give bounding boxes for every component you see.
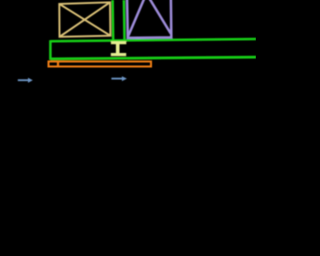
flow arrow left: head xyxy=(28,78,33,83)
flow arrow right: head xyxy=(122,76,127,81)
orange duct internal divider xyxy=(57,61,59,67)
X diagonal top-right to bottom-left xyxy=(60,2,111,37)
wire: green supply line top (bus A) xyxy=(50,39,256,41)
wire: green bus left end cap xyxy=(49,40,52,60)
triangle symbol right side xyxy=(146,0,170,34)
valve symbol: I-beam web xyxy=(116,44,120,53)
flow arrow left: shaft xyxy=(18,79,29,81)
flow arrow right: shaft xyxy=(111,78,122,80)
wire: green riser 2 (joins top bus) xyxy=(123,0,126,40)
wire: green riser 1 (joins top bus) xyxy=(111,0,114,42)
valve symbol: I-beam top flange xyxy=(111,41,126,44)
triangle symbol left side xyxy=(128,0,146,36)
valve symbol: I-beam bottom flange xyxy=(111,53,126,56)
wire: green return line bottom (bus B) xyxy=(50,57,256,59)
device box with X (crossed-box symbol) xyxy=(59,2,110,37)
orange duct outline xyxy=(49,62,152,67)
device box with triangle (purple box, top off-screen) xyxy=(127,0,171,38)
X diagonal top-left to bottom-right xyxy=(59,4,110,36)
